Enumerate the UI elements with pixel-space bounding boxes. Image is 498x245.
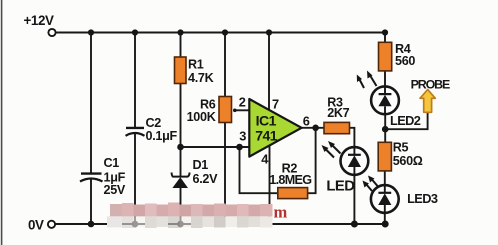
resistor R3 [324, 122, 350, 133]
node: pin3/R2 junction [236, 144, 243, 151]
svg-text:560: 560 [395, 54, 415, 68]
wire: R3 right lead to LED [350, 128, 355, 148]
wire: R6 top lead [224, 33, 226, 98]
wire: pin 4 down to 0V rail [269, 145, 271, 225]
wire: 0V bottom rail [56, 223, 386, 225]
resistor R1 [175, 57, 187, 84]
node A: R1/D1/pin3 junction [177, 144, 184, 151]
node: rail dot R6 [222, 29, 228, 35]
svg-text:4.7K: 4.7K [188, 71, 214, 85]
svg-text:2: 2 [239, 95, 246, 110]
wire: pin 2 stub [235, 109, 250, 111]
node: rail corner dot R4 [382, 29, 388, 35]
svg-text:m: m [274, 203, 288, 222]
watermark mosaic row 2 [107, 216, 273, 228]
svg-text:D1: D1 [193, 158, 209, 172]
wire: pin 3 horizontal from node A [181, 146, 250, 148]
wire: R1 top lead [180, 33, 182, 59]
svg-text:PROBE: PROBE [411, 77, 450, 91]
node: rail dot C1 [88, 29, 94, 35]
svg-text:C1: C1 [104, 156, 120, 170]
wire: R2 feedback loop left [240, 147, 278, 193]
wire: +12V top rail [56, 32, 385, 34]
svg-text:R5: R5 [393, 141, 409, 155]
svg-text:560Ω: 560Ω [393, 154, 423, 168]
resistor R2 [278, 188, 308, 199]
svg-text:741: 741 [255, 128, 278, 144]
svg-text:6.2V: 6.2V [193, 172, 219, 186]
op-amp IC1 741 [249, 99, 301, 157]
svg-text:3: 3 [239, 129, 246, 144]
svg-text:6: 6 [303, 113, 310, 128]
node: 0V dot LED [351, 221, 358, 228]
svg-text:LED: LED [326, 178, 355, 194]
LED emission arrows [322, 141, 341, 158]
svg-text:4: 4 [261, 152, 269, 167]
wire: LED3 bottom lead [384, 213, 386, 224]
LED3 emission arrows [363, 176, 378, 192]
svg-text:+12V: +12V [24, 13, 55, 28]
svg-text:0.1μF: 0.1μF [146, 129, 178, 143]
wire: LED2 bottom to R5 [384, 115, 386, 143]
node: 0V dot LED3 [382, 221, 389, 228]
node: rail dot R1 [177, 29, 183, 35]
wire: LED bottom lead [353, 175, 355, 225]
watermark mosaic row 1 [110, 203, 273, 217]
LED (first) circle and diode [341, 147, 369, 175]
probe arrow [420, 90, 435, 113]
svg-text:2K7: 2K7 [327, 106, 349, 120]
LED3 circle and diode [371, 185, 399, 213]
node: rail dot pin7 [266, 29, 272, 35]
wire: R2 right lead up to output node [308, 128, 316, 193]
svg-text:IC1: IC1 [256, 113, 277, 129]
svg-text:100K: 100K [187, 110, 216, 124]
node: probe junction [382, 126, 389, 133]
node: 0V dot C2 [132, 221, 139, 228]
svg-text:25V: 25V [104, 183, 126, 197]
zener diode D1 [172, 173, 190, 189]
LED2 emission arrows [357, 71, 377, 89]
svg-text:C2: C2 [146, 116, 162, 130]
wire: C1 branch vertical [90, 33, 92, 174]
terminal +12V [48, 29, 55, 36]
node: rail dot C2 [132, 29, 138, 35]
resistor R6 [219, 97, 232, 123]
wire: pin 6 output [302, 127, 325, 129]
wire: R4 top lead from rail corner [384, 33, 386, 44]
node: 0V dot D1 [177, 221, 184, 228]
wire: probe branch [385, 113, 427, 130]
wire: R6 bottom lead down to 0V rail [224, 122, 226, 224]
node: output/R3/R2 junction [312, 125, 319, 132]
svg-text:7: 7 [272, 96, 279, 111]
svg-text:LED3: LED3 [407, 191, 438, 206]
wire: D1 top lead [180, 147, 182, 176]
wire: R4 bottom to LED2 [384, 71, 386, 87]
LED2 circle and diode [371, 86, 399, 114]
node: 0V dot C1 [88, 221, 95, 228]
terminal 0V [48, 221, 55, 228]
wire: C2 branch vertical [134, 33, 136, 128]
capacitor C2 [126, 128, 145, 136]
wire: pin 7 from +12V rail [268, 33, 270, 112]
capacitor C1 [80, 174, 103, 182]
svg-text:R1: R1 [188, 58, 204, 72]
wire: R5 bottom to LED3 [384, 171, 386, 186]
left page border line [1, 0, 3, 245]
wire: R1 bottom lead to node A [180, 83, 182, 147]
wire: D1 bottom lead [180, 188, 182, 225]
node: pin2 stub dot [233, 109, 237, 113]
resistor R4 [379, 42, 392, 71]
resistor R5 [378, 142, 391, 171]
svg-text:1.8MEG: 1.8MEG [269, 173, 312, 187]
svg-text:0V: 0V [28, 218, 44, 233]
svg-text:LED2: LED2 [390, 113, 421, 128]
